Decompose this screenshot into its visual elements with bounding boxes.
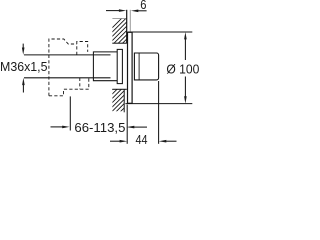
- dim 6: right arrow: [131, 10, 138, 13]
- wall face line: [126, 10, 128, 43]
- wall opening top edge: [112, 42, 127, 44]
- wall hatch top region: [90, 10, 169, 50]
- dim 66-113,5: left arrow: [51, 126, 65, 128]
- svg-text:66-113,5: 66-113,5: [74, 120, 125, 135]
- dim D100: vertical dimension line: [184, 36, 186, 100]
- dim 44: left arrow: [110, 140, 120, 142]
- dim 44: right arrow: [159, 140, 167, 143]
- dim D100: bottom extension line (merges with hatch bottom edge): [125, 103, 192, 105]
- valve collar: [117, 49, 122, 83]
- dim M36: down arrow: [22, 44, 24, 49]
- dim D100: top extension line: [128, 31, 193, 33]
- valve body box: [93, 52, 117, 81]
- dim 44: right extension line: [158, 81, 160, 144]
- wall opening bottom edge: [112, 88, 127, 90]
- svg-text:6: 6: [140, 0, 146, 12]
- dim 66-113,5: right arrow: [127, 126, 135, 129]
- dim M36: up arrow: [22, 84, 24, 93]
- knob inner edge line: [138, 53, 140, 80]
- dim 44: left extension line: [126, 105, 128, 144]
- svg-text:Ø 100: Ø 100: [166, 61, 199, 76]
- hidden outline upper (dashed): [49, 39, 89, 96]
- svg-text:44: 44: [136, 132, 148, 147]
- svg-text:M36x1,5: M36x1,5: [0, 59, 48, 74]
- escutcheon plate: [128, 32, 133, 103]
- wall face line lower: [123, 89, 125, 112]
- hidden outline lower (dashed): [49, 78, 89, 96]
- dim 6: gray extension line: [129, 10, 131, 32]
- wall hatch top edge: [112, 18, 126, 20]
- dim 6: left arrow: [106, 10, 122, 12]
- dim 66-113,5: left extension line: [69, 96, 71, 130]
- handle knob body: [134, 53, 158, 80]
- spindle bottom line: [24, 77, 111, 79]
- wall hatch bottom region: [84, 72, 173, 118]
- spindle top line: [24, 54, 111, 56]
